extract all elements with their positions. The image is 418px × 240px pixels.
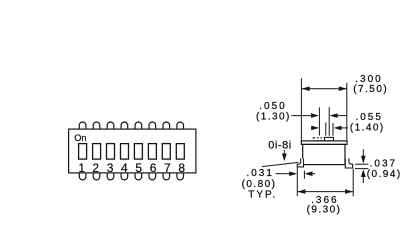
- svg-text:.031: .031: [246, 168, 273, 179]
- svg-text:.055: .055: [355, 112, 382, 123]
- dimension value labels: [242, 74, 402, 216]
- DIP switch body outline (top view): [69, 129, 196, 173]
- side view: switch cover/lid: [301, 141, 347, 145]
- svg-text:1: 1: [78, 161, 85, 175]
- DIP switch top view: bottom pin row (pins 1-8 lower): [79, 173, 183, 180]
- dimension .366 extension lines: [297, 168, 353, 197]
- dimension .031 arrowheads: [289, 171, 312, 176]
- DIP switch top view: top pin row (pins 1-8 upper): [79, 122, 183, 129]
- dimension .037 arrow shafts: [362, 149, 364, 183]
- actuator travel guide lines: [319, 107, 333, 136]
- position numbers 1-8: [78, 161, 185, 175]
- svg-text:TYP.: TYP.: [248, 189, 277, 200]
- side view: actuator nub (solid position): [324, 137, 333, 141]
- svg-text:On: On: [74, 133, 86, 143]
- switch actuators 1-8 (slide buttons): [79, 144, 185, 160]
- dimension .055 arrowheads: [311, 126, 341, 131]
- svg-text:(1.30): (1.30): [256, 112, 291, 123]
- side view: switch body: [303, 144, 345, 164]
- dimension .300 arrowheads: [302, 86, 347, 91]
- svg-text:7: 7: [164, 161, 171, 175]
- angle callout 0-8 deg arrow shaft: [283, 150, 285, 156]
- svg-text:0i-8i: 0i-8i: [268, 139, 292, 151]
- svg-text:5: 5: [135, 161, 142, 175]
- dimension .050 leader lines: [292, 115, 347, 117]
- leader line to left foot: [262, 162, 298, 166]
- dimension .037 arrowheads: [361, 156, 366, 177]
- svg-text:3: 3: [107, 161, 114, 175]
- dimension .050 arrowheads: [311, 113, 338, 118]
- side view: actuator nub phantom (dashed alternate position): [313, 138, 321, 141]
- angle callout down arrowhead: [282, 154, 287, 162]
- side view: left pin foot: [297, 158, 303, 167]
- dimension .300 line: [302, 88, 347, 90]
- svg-text:2: 2: [92, 161, 99, 175]
- svg-text:(1.40): (1.40): [350, 123, 385, 134]
- dimension .037 tick lines: [355, 164, 368, 168]
- dimension .366 arrowheads: [297, 189, 353, 194]
- svg-text:(0.94): (0.94): [367, 169, 402, 180]
- svg-text:4: 4: [121, 161, 128, 175]
- svg-text:.037: .037: [370, 158, 397, 169]
- side view: right pin foot: [345, 158, 352, 168]
- svg-text:(7.50): (7.50): [353, 84, 388, 95]
- dimension .366 line: [297, 191, 353, 193]
- dimension .055 leader lines: [311, 127, 348, 129]
- dimension .300 extension lines: [301, 78, 346, 141]
- svg-text:6: 6: [150, 161, 157, 175]
- svg-text:(9.30): (9.30): [307, 205, 342, 216]
- svg-text:8: 8: [178, 161, 185, 175]
- dimension .031 leader lines: [276, 171, 316, 179]
